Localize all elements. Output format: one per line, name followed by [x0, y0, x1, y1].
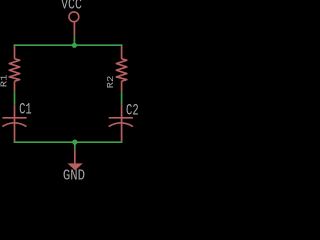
resistor R1 bottom pin: [14, 81, 16, 92]
wire left middle: [14, 92, 16, 105]
wire GND stem: [74, 142, 76, 149]
resistor R2 body: [116, 59, 126, 81]
svg-text:R2: R2: [106, 76, 116, 89]
capacitor C2 bottom plate arc: [109, 123, 133, 127]
wire VCC stem: [73, 36, 75, 45]
capacitor C2 lead: [121, 104, 123, 141]
junction bottom: [72, 140, 77, 145]
node VCC label: [61, 0, 82, 14]
resistor R1 top pin: [14, 45, 16, 59]
junction top: [72, 43, 77, 48]
power symbol GND pin: [74, 149, 76, 163]
wire left rail top corner: [14, 44, 16, 46]
svg-text:C1: C1: [19, 101, 32, 119]
capacitor C1 label: [19, 101, 32, 119]
svg-text:GND: GND: [63, 169, 85, 180]
resistor R2 bottom pin: [121, 81, 123, 92]
wire right rail top corner: [121, 44, 123, 46]
capacitor C2 label: [126, 102, 139, 120]
power symbol VCC pin: [73, 22, 75, 37]
resistor R1 body: [9, 59, 19, 81]
node GND label: [63, 169, 85, 185]
wire top rail: [14, 44, 123, 46]
wire right middle: [121, 92, 123, 105]
svg-text:R1: R1: [0, 74, 9, 87]
capacitor C1 lead: [14, 104, 16, 141]
capacitor C1 bottom plate arc: [2, 123, 26, 127]
svg-text:C2: C2: [126, 102, 139, 120]
capacitor C1 top plate: [2, 117, 26, 119]
power symbol VCC circle: [69, 12, 79, 22]
capacitor C2 top plate: [109, 117, 133, 119]
resistor R2 top pin: [121, 45, 123, 59]
power symbol GND triangle: [67, 163, 82, 170]
wire bottom rail: [14, 141, 123, 143]
